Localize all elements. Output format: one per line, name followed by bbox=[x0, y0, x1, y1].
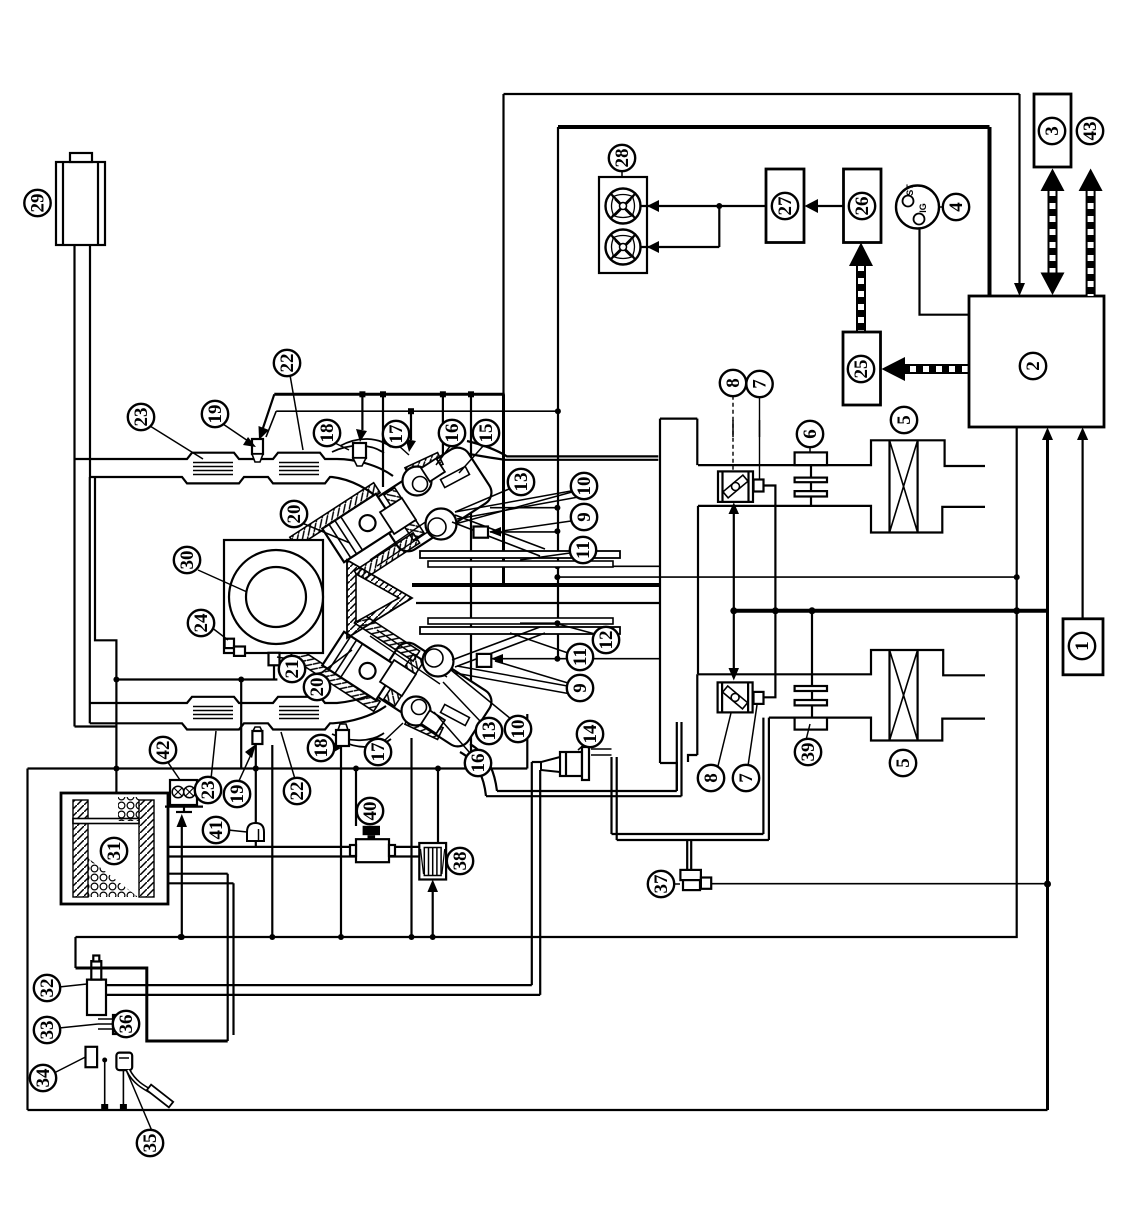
label 7 bbox=[733, 765, 759, 791]
leader 4 bbox=[939, 206, 944, 208]
air flow element 5 lower bbox=[888, 650, 890, 741]
center V wedge hatched bbox=[347, 560, 412, 638]
label 5 bbox=[890, 750, 916, 776]
svg-text:21: 21 bbox=[282, 660, 303, 679]
striped arrow 43 bbox=[1086, 188, 1096, 296]
svg-text:1: 1 bbox=[1072, 641, 1093, 651]
leader 24 bbox=[211, 627, 228, 640]
svg-text:25: 25 bbox=[851, 360, 872, 379]
injector 18 lower bbox=[338, 724, 348, 730]
radiator fan box 28 bbox=[599, 177, 647, 273]
nozzle lower bbox=[441, 704, 470, 725]
wire x272 down bbox=[271, 745, 273, 937]
leader 42 bbox=[167, 761, 180, 780]
svg-text:22: 22 bbox=[287, 782, 308, 801]
leader 19 lower bbox=[238, 748, 254, 783]
svg-text:20: 20 bbox=[284, 505, 305, 524]
throttle drum upper bbox=[405, 453, 443, 480]
nozzle 15 upper bbox=[441, 466, 470, 487]
sensor wire y658 with arrow bbox=[492, 658, 660, 660]
label 15 bbox=[473, 420, 499, 446]
svg-text:6: 6 bbox=[800, 429, 821, 439]
throttle position unit upper bbox=[754, 480, 764, 492]
label 3 bbox=[1039, 118, 1065, 144]
svg-text:17: 17 bbox=[386, 424, 407, 444]
pipe pair down bbox=[228, 874, 234, 1041]
label 38 bbox=[447, 848, 473, 874]
svg-text:10: 10 bbox=[508, 720, 529, 739]
surge connect wall corner lower bbox=[660, 763, 677, 791]
label 22 bbox=[274, 350, 300, 376]
label 13 bbox=[508, 469, 534, 495]
plug cap 16 upper bbox=[421, 458, 445, 481]
valve cover outline upper bbox=[332, 439, 391, 453]
svg-text:IG: IG bbox=[918, 203, 928, 213]
arrow up into valve box bbox=[733, 512, 735, 611]
filler cap 35 bbox=[116, 1053, 132, 1071]
plenum line thick bbox=[412, 583, 660, 587]
label 25 bbox=[848, 356, 874, 382]
leader 39 bbox=[806, 724, 810, 740]
label 18 bbox=[308, 735, 334, 761]
svg-text:16: 16 bbox=[468, 754, 489, 773]
sensor box lower bbox=[477, 654, 492, 667]
label 12 bbox=[593, 627, 619, 653]
svg-text:36: 36 bbox=[116, 1015, 137, 1034]
label 27 bbox=[772, 193, 798, 219]
label 36 bbox=[113, 1011, 139, 1037]
svg-text:32: 32 bbox=[37, 979, 58, 998]
thick idle-up bus bbox=[734, 609, 1048, 613]
svg-text:26: 26 bbox=[852, 197, 873, 216]
label 8 bbox=[698, 765, 724, 791]
svg-text:43: 43 bbox=[1080, 122, 1101, 141]
leader 20 upper bbox=[302, 523, 350, 543]
leader 30 bbox=[198, 570, 247, 592]
leader 14 bbox=[578, 744, 585, 750]
lower intake duct top edge bbox=[698, 650, 985, 675]
fan motor lower bbox=[606, 230, 641, 265]
upper runner bottom edge bbox=[90, 477, 383, 503]
wire bus down at x383 bbox=[382, 394, 384, 487]
label 39 bbox=[795, 739, 821, 765]
svg-text:31: 31 bbox=[104, 842, 125, 861]
runner left closure bbox=[73, 459, 75, 477]
leader 15 upper bbox=[459, 445, 484, 473]
svg-text:27: 27 bbox=[775, 196, 796, 216]
wire outer top vertical left bbox=[502, 94, 504, 394]
label 37 bbox=[648, 871, 674, 897]
distributor advance wire bbox=[116, 678, 277, 680]
wire ignition to ECU bbox=[920, 229, 970, 315]
ignition switch 4 bbox=[896, 186, 939, 229]
evap separator 42 bbox=[170, 780, 197, 805]
runner1 ribs bbox=[193, 463, 319, 475]
leader 28 bbox=[621, 170, 623, 177]
leader 35 bbox=[127, 1072, 152, 1131]
surge tank wall left bbox=[659, 419, 661, 763]
pair to solenoid 37 bbox=[687, 840, 691, 871]
label 11 bbox=[567, 644, 593, 670]
label 9 bbox=[571, 504, 597, 530]
svg-text:42: 42 bbox=[153, 741, 174, 760]
label 2 bbox=[1020, 353, 1046, 379]
wire bus down x442.9 bbox=[442, 394, 444, 520]
enclosure bottom line bbox=[28, 1109, 1048, 1111]
svg-text:4: 4 bbox=[946, 202, 967, 212]
port lines upper bbox=[452, 515, 545, 556]
wire corner to enclosure bbox=[75, 725, 117, 727]
wire bus down x471 bbox=[470, 394, 472, 768]
svg-text:8: 8 bbox=[701, 773, 722, 783]
svg-text:18: 18 bbox=[317, 424, 338, 443]
port lines lower bbox=[452, 627, 545, 667]
leader 21 bbox=[277, 657, 289, 659]
svg-text:22: 22 bbox=[277, 354, 298, 373]
wire ECU bottom mid arrow bbox=[1046, 440, 1049, 1110]
relay 26 box bbox=[844, 169, 882, 243]
relay 25 box bbox=[843, 332, 881, 405]
svg-text:10: 10 bbox=[574, 477, 595, 496]
svg-text:13: 13 bbox=[511, 473, 532, 492]
dashed wire 8 to valve bbox=[732, 396, 734, 471]
pipe from air cleaner down bbox=[73, 245, 75, 459]
label 19 bbox=[224, 781, 250, 807]
leader 17 upper bbox=[399, 446, 409, 455]
leader 11 upper bbox=[520, 553, 570, 560]
label 33 bbox=[34, 1017, 60, 1043]
svg-text:39: 39 bbox=[798, 743, 819, 762]
injector 19 lower bbox=[253, 727, 262, 731]
label 14 bbox=[577, 721, 603, 747]
check valve 41 bbox=[247, 823, 264, 841]
wire left long down bbox=[73, 477, 75, 727]
label 30 bbox=[174, 547, 200, 573]
label 40 bbox=[357, 798, 383, 824]
sensor box upper bbox=[474, 527, 489, 538]
lower runner top edge bbox=[90, 683, 393, 703]
solenoid 37 bbox=[680, 870, 701, 880]
wire fan2 junction bbox=[641, 246, 720, 248]
wire fan1 to relay 27 bbox=[641, 205, 767, 207]
svg-text:41: 41 bbox=[206, 821, 227, 840]
leader 7 lower bbox=[748, 705, 757, 766]
leader 13 lower bbox=[443, 682, 480, 721]
label 11 bbox=[570, 537, 596, 563]
fuel rail upper bbox=[420, 551, 620, 558]
leader 37 bbox=[672, 883, 680, 885]
fuel pump 32 bbox=[87, 980, 106, 1015]
throttle valve box upper bbox=[718, 471, 753, 502]
label 23 bbox=[195, 777, 221, 803]
head cover lower bbox=[369, 638, 496, 752]
wire throttle lower down bbox=[410, 738, 412, 937]
vacuum loop left pair bbox=[612, 757, 617, 840]
wire from position unit down bbox=[764, 486, 776, 698]
label 32 bbox=[34, 975, 60, 1001]
wire to 40 bbox=[355, 769, 357, 827]
leader 6 bbox=[809, 446, 811, 452]
crank pulley 30 bbox=[229, 550, 323, 644]
svg-text:11: 11 bbox=[570, 648, 591, 666]
leader 11 lower bbox=[510, 633, 568, 653]
valve cover outline lower bbox=[332, 733, 391, 747]
lower runner bottom edge bbox=[90, 706, 386, 730]
wire outer top horizontal bbox=[504, 93, 1020, 95]
svg-text:23: 23 bbox=[131, 408, 152, 427]
throttle position unit lower bbox=[754, 692, 764, 704]
injector bus thick bbox=[274, 393, 504, 396]
fuel pipe pair tank lower bbox=[168, 874, 234, 884]
svg-text:13: 13 bbox=[479, 722, 500, 741]
arrow up into 38 bbox=[432, 892, 434, 937]
svg-text:5: 5 bbox=[893, 758, 914, 768]
fuel rail lower bbox=[420, 627, 620, 634]
leader 18 lower bbox=[330, 740, 337, 746]
piston upper bbox=[322, 494, 397, 562]
plug rail lower bbox=[455, 666, 584, 696]
striped arrow 3 to ECU double head bbox=[1048, 188, 1058, 276]
striped arrow ECU to 25 bbox=[898, 364, 968, 374]
cylinder wall hatched lower outer bbox=[290, 647, 380, 712]
svg-text:34: 34 bbox=[33, 1068, 54, 1088]
arrow down into lower valve box bbox=[733, 611, 735, 669]
svg-text:35: 35 bbox=[140, 1134, 161, 1153]
leader 23 lower bbox=[211, 731, 216, 779]
thick drop to plenum bbox=[502, 394, 505, 585]
label 42 bbox=[150, 737, 176, 763]
cylinder wall hatched lower inner bbox=[354, 613, 419, 661]
label 35 bbox=[137, 1130, 163, 1156]
arrow up to 42 bbox=[181, 826, 183, 937]
rocker boss upper bbox=[380, 498, 416, 534]
leader 32 bbox=[59, 984, 87, 987]
label 16 bbox=[465, 750, 491, 776]
svg-text:12: 12 bbox=[596, 631, 617, 650]
fuel return double pipe bbox=[106, 985, 540, 995]
svg-text:38: 38 bbox=[450, 852, 471, 871]
label 26 bbox=[849, 193, 875, 219]
label 24 bbox=[188, 610, 214, 636]
crank sensor squares 24 bbox=[225, 639, 234, 648]
pushrod lines bbox=[370, 512, 447, 684]
sensor wire y531 with arrow bbox=[490, 531, 557, 533]
wire inner top horizontal bbox=[558, 125, 990, 129]
svg-text:14: 14 bbox=[580, 724, 601, 744]
svg-text:11: 11 bbox=[573, 541, 594, 559]
capacitor-style damper 6 bbox=[810, 465, 812, 478]
head cover upper bbox=[369, 443, 496, 557]
vacuum loop bottom pair bbox=[612, 834, 769, 840]
leader 13 upper bbox=[455, 489, 509, 512]
label 29 bbox=[24, 190, 50, 216]
main harness bus bbox=[178, 934, 184, 940]
wire injector18 lower down bbox=[340, 746, 342, 937]
label 9 bbox=[567, 675, 593, 701]
svg-text:7: 7 bbox=[750, 379, 771, 389]
label 16 bbox=[439, 420, 465, 446]
svg-text:20: 20 bbox=[307, 678, 328, 697]
idle control body upper 17 bbox=[403, 467, 432, 496]
label 43 bbox=[1077, 118, 1103, 144]
runner2 ribs bbox=[193, 707, 319, 719]
air flow element 5 upper bbox=[888, 440, 890, 532]
wire into ECU top with arrow bbox=[1018, 94, 1020, 284]
label 8 bbox=[720, 370, 746, 396]
upper runner top edge bbox=[75, 453, 394, 476]
fan motor upper bbox=[606, 189, 641, 224]
leader 34 bbox=[54, 1057, 86, 1073]
leader 10 upper bbox=[455, 492, 572, 524]
svg-text:23: 23 bbox=[198, 781, 219, 800]
sensor wire y507 bbox=[490, 507, 557, 509]
wire 7 to position unit bbox=[759, 397, 761, 480]
leader 41 bbox=[228, 830, 247, 832]
pump feed thick bbox=[76, 968, 228, 1041]
svg-text:15: 15 bbox=[476, 424, 497, 443]
throttle drum lower bbox=[405, 713, 443, 740]
sensor wire y411 bbox=[276, 410, 558, 412]
wire 37 to right bbox=[711, 883, 1047, 885]
leader 22 upper bbox=[290, 375, 303, 450]
label 21 bbox=[279, 656, 305, 682]
svg-text:16: 16 bbox=[442, 424, 463, 443]
drops to bottom line bbox=[104, 1060, 106, 1107]
arrow 26 to 27 bbox=[816, 205, 844, 207]
connector 33 bbox=[113, 1015, 129, 1034]
leader 8 upper bbox=[732, 420, 734, 437]
svg-text:30: 30 bbox=[177, 551, 198, 570]
svg-text:28: 28 bbox=[612, 149, 633, 168]
cylinder wall hatched upper outer bbox=[290, 483, 380, 548]
idle control body lower bbox=[402, 697, 431, 726]
air cleaner 29 box bbox=[56, 162, 105, 245]
valve spring lower bbox=[423, 646, 454, 677]
label 10 bbox=[505, 716, 531, 742]
label 10 bbox=[571, 473, 597, 499]
label 28 bbox=[609, 145, 635, 171]
svg-text:8: 8 bbox=[723, 378, 744, 388]
sensor wire y577 bbox=[557, 576, 1016, 578]
leader 16 upper bbox=[436, 445, 451, 465]
sensor wire y623 bbox=[520, 622, 557, 624]
leader 9 upper bbox=[502, 521, 571, 531]
leader 18 upper bbox=[335, 443, 349, 450]
fuel pipe pair tank to 38 bbox=[168, 847, 419, 857]
relay 27 box bbox=[766, 169, 804, 243]
svg-text:37: 37 bbox=[651, 874, 672, 894]
wire 116 to tank bbox=[115, 769, 117, 794]
rocker boss lower bbox=[380, 660, 416, 696]
leader 16 lower bbox=[434, 712, 470, 753]
damper 39 bbox=[811, 611, 813, 686]
enclosure right stub up bbox=[526, 714, 528, 769]
leader 8 lower bbox=[718, 713, 731, 766]
upper intake duct bottom edge bbox=[698, 506, 985, 533]
svg-text:19: 19 bbox=[227, 785, 248, 804]
sensor wire y566 bbox=[520, 565, 660, 567]
plug cap lower bbox=[421, 710, 445, 733]
svg-text:9: 9 bbox=[570, 683, 591, 693]
label 7 bbox=[746, 371, 772, 397]
label 18 bbox=[314, 420, 340, 446]
wire to 38 top bbox=[437, 769, 439, 844]
label 17 bbox=[383, 421, 409, 447]
leader 9 lower bbox=[495, 661, 568, 683]
leader 33 bbox=[59, 1024, 98, 1028]
crankcase rect bbox=[224, 540, 323, 653]
label 5 bbox=[891, 407, 917, 433]
leader 22 lower bbox=[281, 732, 295, 779]
svg-text:3: 3 bbox=[1042, 126, 1063, 136]
bus arrow to injector 19 bbox=[263, 394, 274, 428]
valve spring upper bbox=[426, 509, 457, 540]
canister 38 bbox=[419, 843, 446, 880]
label 20 bbox=[304, 674, 330, 700]
label 34 bbox=[30, 1065, 56, 1091]
pipe 14 down bbox=[532, 762, 540, 995]
boost gauge 14 bbox=[591, 749, 612, 755]
leader 20 lower bbox=[317, 650, 352, 676]
label 13 bbox=[476, 718, 502, 744]
EGR pipe pair D bbox=[486, 791, 682, 796]
wire to throttle 17 arrow bbox=[410, 411, 412, 440]
label 6 bbox=[797, 421, 823, 447]
two way valve 40 bbox=[363, 826, 380, 835]
label 31 bbox=[101, 838, 127, 864]
leader 10 lower bbox=[451, 670, 511, 719]
enclosure left line bbox=[26, 769, 28, 1111]
striped arrow 25 to 26 bbox=[856, 263, 866, 332]
svg-text:33: 33 bbox=[37, 1021, 58, 1040]
label 23 bbox=[128, 404, 154, 430]
leader 12 bbox=[558, 624, 595, 634]
plug rail upper bbox=[455, 489, 584, 519]
label 4 bbox=[943, 194, 969, 220]
leader 19 upper bbox=[223, 424, 251, 443]
label 20 bbox=[281, 501, 307, 527]
diagnostic box 1 bbox=[1063, 619, 1103, 675]
cylinder wall hatched upper inner bbox=[354, 533, 419, 581]
svg-text:ST: ST bbox=[905, 184, 915, 196]
svg-text:9: 9 bbox=[574, 512, 595, 522]
wire drop to enclosure bbox=[240, 680, 242, 769]
pipe wall between runners bbox=[89, 477, 91, 703]
svg-text:2: 2 bbox=[1023, 361, 1044, 371]
svg-text:17: 17 bbox=[368, 742, 389, 762]
label 22 bbox=[284, 778, 310, 804]
lower intake duct bottom edge bbox=[769, 718, 985, 741]
head gasket plate upper bbox=[384, 488, 424, 540]
wire bus to injector 18 bbox=[361, 394, 363, 430]
injector 19 bbox=[252, 439, 263, 454]
fuel tank 31 bbox=[61, 793, 168, 904]
vacuum loop right pair bbox=[763, 718, 769, 840]
wire ECU bottom to box1 arrow bbox=[1081, 440, 1083, 619]
label 17 bbox=[365, 739, 391, 765]
leader 17 lower bbox=[384, 723, 403, 741]
svg-text:5: 5 bbox=[894, 415, 915, 425]
surge tank wall right bbox=[696, 419, 698, 466]
piston lower bbox=[322, 632, 397, 700]
wire thick into ECU top bbox=[988, 127, 992, 296]
wire ECU bottom left down bbox=[76, 427, 1017, 937]
vacuum wire from runner to distributor bbox=[95, 477, 116, 769]
label 19 bbox=[202, 401, 228, 427]
wire inner top vertical left bbox=[557, 127, 559, 659]
svg-text:7: 7 bbox=[736, 773, 757, 783]
svg-text:40: 40 bbox=[360, 802, 381, 821]
